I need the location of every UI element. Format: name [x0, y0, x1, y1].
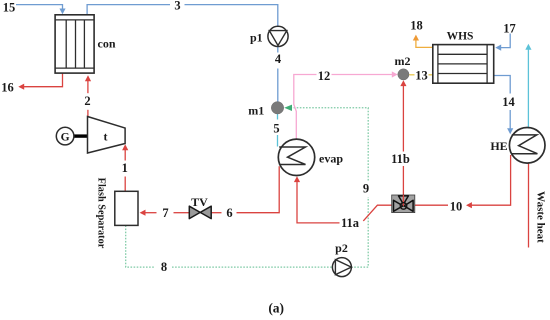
- svg-text:Flash Separator: Flash Separator: [96, 178, 107, 249]
- svg-text:4: 4: [275, 52, 282, 66]
- svg-text:2: 2: [84, 94, 90, 108]
- svg-text:t: t: [104, 130, 108, 144]
- svg-text:G: G: [61, 132, 70, 144]
- svg-text:7: 7: [162, 206, 168, 220]
- svg-text:14: 14: [502, 95, 515, 109]
- svg-text:con: con: [98, 37, 116, 51]
- svg-text:m1: m1: [248, 103, 264, 117]
- svg-text:11b: 11b: [391, 152, 410, 166]
- svg-text:1: 1: [122, 161, 128, 175]
- svg-text:TV: TV: [191, 195, 208, 209]
- svg-text:p1: p1: [250, 31, 263, 45]
- svg-text:10: 10: [450, 200, 463, 214]
- svg-text:HE: HE: [490, 139, 507, 153]
- svg-text:13: 13: [415, 69, 428, 83]
- svg-text:(a): (a): [268, 301, 284, 316]
- svg-text:m2: m2: [395, 54, 411, 68]
- svg-text:6: 6: [226, 206, 232, 220]
- svg-text:17: 17: [503, 22, 516, 36]
- svg-text:WHS: WHS: [447, 31, 474, 43]
- svg-text:5: 5: [273, 122, 279, 136]
- svg-text:12: 12: [318, 69, 331, 83]
- svg-text:8: 8: [161, 260, 167, 274]
- svg-text:15: 15: [3, 1, 16, 15]
- svg-text:Waste heat: Waste heat: [535, 191, 547, 243]
- svg-text:p2: p2: [335, 241, 348, 255]
- svg-text:11a: 11a: [341, 216, 360, 230]
- svg-text:evap: evap: [319, 152, 343, 166]
- svg-text:16: 16: [1, 81, 14, 95]
- svg-text:9: 9: [363, 182, 369, 196]
- svg-text:18: 18: [410, 19, 423, 33]
- svg-text:3: 3: [174, 0, 180, 13]
